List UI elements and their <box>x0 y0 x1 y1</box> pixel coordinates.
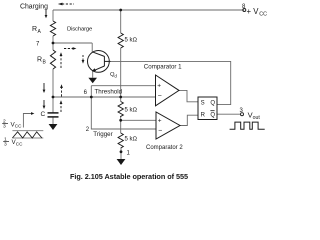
svg-text:5 kΩ: 5 kΩ <box>125 38 138 44</box>
svg-text:2: 2 <box>86 127 90 133</box>
svg-text:5 kΩ: 5 kΩ <box>125 137 138 143</box>
svg-text:Comparator 2: Comparator 2 <box>146 145 183 151</box>
svg-text:3: 3 <box>3 124 6 130</box>
svg-text:CC: CC <box>16 141 23 146</box>
svg-text:3: 3 <box>4 142 7 148</box>
svg-text:d: d <box>114 73 117 78</box>
svg-text:Discharge: Discharge <box>67 27 93 33</box>
svg-text:5 kΩ: 5 kΩ <box>125 108 138 114</box>
svg-text:Q: Q <box>210 112 215 118</box>
svg-text:C: C <box>41 111 46 118</box>
svg-text:+ V: + V <box>247 7 260 16</box>
svg-text:CC: CC <box>259 11 267 17</box>
svg-text:out: out <box>253 115 261 121</box>
svg-text:6: 6 <box>84 90 88 96</box>
svg-text:B: B <box>43 59 47 65</box>
svg-text:CC: CC <box>15 124 22 129</box>
svg-text:+: + <box>158 117 162 124</box>
svg-text:R: R <box>201 113 206 119</box>
svg-text:Threshold: Threshold <box>95 89 123 96</box>
svg-text:R: R <box>32 26 37 33</box>
svg-text:Fig. 2.105 Astable operation o: Fig. 2.105 Astable operation of 555 <box>70 172 188 181</box>
svg-text:−: − <box>158 93 162 100</box>
svg-text:R: R <box>37 56 42 63</box>
svg-text:+: + <box>157 82 161 89</box>
svg-text:S: S <box>201 101 205 107</box>
svg-text:−: − <box>158 128 162 135</box>
svg-text:7: 7 <box>36 41 40 47</box>
svg-text:Charging: Charging <box>20 4 48 11</box>
svg-text:1: 1 <box>127 151 131 157</box>
svg-text:A: A <box>38 29 42 35</box>
svg-text:Comparator 1: Comparator 1 <box>144 63 182 70</box>
svg-text:Trigger: Trigger <box>93 131 112 138</box>
svg-text:Q: Q <box>210 101 215 107</box>
